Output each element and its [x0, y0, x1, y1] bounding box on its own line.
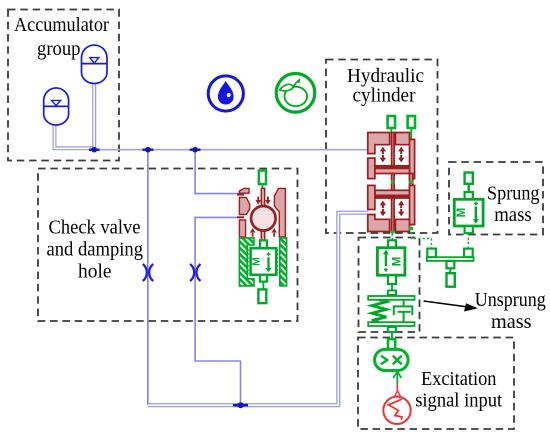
accumulator A1 (small, left) [44, 88, 95, 148]
label: Excitation signal input [415, 369, 503, 412]
hydraulic cylinder green rod tips [391, 180, 413, 233]
icon: water drop (fluid properties) [208, 76, 243, 111]
node: junction dot bottom line [233, 402, 248, 408]
lever linkage [427, 249, 474, 287]
wire: check valve branch lower (port 2 down to bottom line) [195, 217, 240, 405]
orifice (damping hole) 1 [143, 264, 153, 281]
signal converter (displacement input) [375, 339, 409, 370]
svg-text:Check valve: Check valve [49, 218, 141, 239]
spring-damper (tire) [368, 291, 414, 340]
node: junction dots on main line [89, 147, 201, 153]
svg-text:Excitation: Excitation [421, 369, 497, 390]
svg-text:Accumulator: Accumulator [14, 15, 109, 36]
wire: main hydraulic line y=149.7 [94, 149, 368, 151]
hydraulic cylinder body [368, 133, 415, 232]
check valve assembly: top green port [259, 171, 266, 189]
svg-text:group: group [37, 39, 81, 60]
check valve green hatched guides [239, 238, 286, 286]
check valve red body [237, 188, 285, 240]
signal link: source to converter [393, 371, 401, 397]
box: excitation signal input [358, 338, 514, 430]
box: hydraulic cylinder [326, 60, 438, 234]
unsprung mass component [377, 240, 405, 290]
label: Accumulator group [14, 15, 109, 60]
check valve arrows [250, 197, 277, 237]
label: Check valve and damping hole [47, 218, 144, 283]
box: unsprung mass group [359, 238, 420, 333]
box: accumulator group [8, 10, 119, 161]
svg-text:Sprung: Sprung [487, 184, 540, 205]
svg-text:mass: mass [494, 205, 532, 226]
check valve poppet circle [251, 206, 276, 231]
svg-text:cylinder: cylinder [353, 86, 416, 107]
orifice (damping hole) 2 [190, 264, 200, 281]
svg-text:mass: mass [491, 312, 532, 333]
svg-text:and damping: and damping [47, 240, 144, 261]
accumulator A2 (large, right) [82, 45, 108, 150]
label: Sprung mass [487, 184, 540, 227]
excitation signal source [383, 397, 410, 424]
svg-text:M: M [456, 208, 468, 218]
wire: check valve branch upper (to port 1) [195, 150, 240, 194]
box: check valve and damping hole [38, 169, 298, 322]
link: cylinder rods / sprung mass to lever (green dashed) [392, 228, 468, 249]
svg-text:M: M [391, 257, 403, 267]
label: Unsprung mass [475, 290, 546, 333]
wire: bottom line to cylinder lower port (double pipe) [148, 213, 369, 406]
annotation arrow to unsprung mass [424, 301, 478, 312]
wire: damping hole branch x=148 [147, 150, 149, 406]
check valve spool mass box [248, 240, 277, 303]
sprung mass component [454, 173, 483, 234]
svg-text:signal input: signal input [415, 391, 503, 412]
box: sprung mass [449, 162, 543, 235]
svg-text:M: M [251, 257, 263, 266]
hydraulic cylinder chamber arrows [380, 147, 405, 216]
svg-text:hole: hole [78, 262, 112, 283]
hydraulic cylinder: green ports on top [388, 116, 415, 128]
svg-text:Hydraulic: Hydraulic [347, 66, 424, 87]
label: Hydraulic cylinder [347, 66, 424, 107]
svg-text:Unsprung: Unsprung [475, 290, 546, 311]
icon: apple (fluid type) [276, 74, 315, 113]
